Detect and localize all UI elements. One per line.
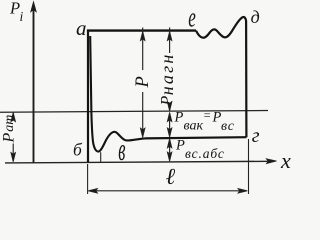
l-dimension line xyxy=(88,189,247,194)
svg-text:в: в xyxy=(118,131,125,167)
svg-text:д: д xyxy=(251,7,260,27)
drop line below suction dip xyxy=(100,152,102,162)
dimension P_vs.abs xyxy=(167,139,172,162)
indicator diagram: left edge a-b xyxy=(87,30,89,163)
svg-text:е: е xyxy=(188,2,196,34)
svg-text:б: б xyxy=(73,139,83,159)
svg-text:ℓ: ℓ xyxy=(166,164,176,189)
l-dimension extension line right xyxy=(248,139,250,194)
svg-text:i: i xyxy=(20,9,24,24)
svg-text:Рат: Рат xyxy=(0,115,17,144)
atmospheric pressure line (P_vak level) xyxy=(0,111,268,113)
dimension P_nagn xyxy=(167,28,172,112)
svg-text:г: г xyxy=(252,125,260,147)
svg-text:а: а xyxy=(76,16,87,40)
svg-text:Рнагн: Рнагн xyxy=(157,53,177,107)
svg-text:Р: Р xyxy=(133,76,153,88)
x-axis xyxy=(5,159,277,164)
svg-text:Р: Р xyxy=(9,0,20,17)
top line a-e xyxy=(87,29,196,31)
suction stroke curve b-v xyxy=(90,36,145,152)
svg-text:х: х xyxy=(280,148,291,173)
wavy top e-d and right edge d-g xyxy=(196,17,246,137)
bottom line v-g xyxy=(145,137,246,138)
dimension P_vak = P_vs xyxy=(167,112,172,137)
l-dimension extension line left xyxy=(87,164,89,194)
dimension P (middle) xyxy=(140,28,145,138)
y-axis xyxy=(31,2,37,163)
dimension P_at (left) xyxy=(11,112,16,162)
